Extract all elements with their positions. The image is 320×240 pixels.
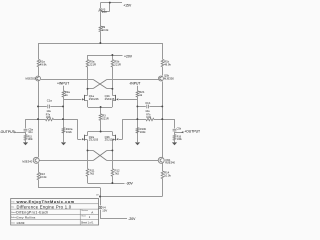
svg-text:49.9k: 49.9k xyxy=(40,63,47,67)
svg-text:Doc: Doc xyxy=(11,207,14,209)
svg-text:Board: Board xyxy=(11,211,16,214)
svg-text:-30V: -30V xyxy=(126,182,134,186)
svg-text:C1b: C1b xyxy=(145,101,151,105)
svg-text:10u: 10u xyxy=(145,109,150,113)
svg-text:7k5: 7k5 xyxy=(115,172,120,176)
svg-text:MJE350: MJE350 xyxy=(164,76,174,80)
svg-text:2SK246: 2SK246 xyxy=(105,97,115,101)
svg-text:-INPUT: -INPUT xyxy=(129,82,140,86)
svg-text:10u: 10u xyxy=(28,130,33,134)
svg-text:Difference Engine Pro 1.0: Difference Engine Pro 1.0 xyxy=(17,204,72,209)
svg-text:MJE340: MJE340 xyxy=(165,161,175,165)
svg-text:10.0k: 10.0k xyxy=(102,28,109,32)
svg-text:Revision: Revision xyxy=(81,210,88,212)
svg-text:102k: 102k xyxy=(66,130,73,134)
svg-text:221R: 221R xyxy=(114,63,121,67)
svg-text:MJE350: MJE350 xyxy=(26,77,36,81)
svg-text:221R: 221R xyxy=(102,116,109,120)
svg-text:C5b: C5b xyxy=(177,128,182,131)
svg-text:15V: 15V xyxy=(102,208,107,212)
svg-text:49.9k: 49.9k xyxy=(164,63,171,67)
svg-text:2SJ103: 2SJ103 xyxy=(105,138,115,142)
svg-text:-20V: -20V xyxy=(128,217,136,221)
svg-text:+15V: +15V xyxy=(123,4,132,8)
svg-text:102k: 102k xyxy=(46,117,52,119)
svg-text:2SJ103: 2SJ103 xyxy=(89,138,99,142)
svg-text:+OUTPUT: +OUTPUT xyxy=(184,129,200,133)
svg-text:102k: 102k xyxy=(140,130,147,134)
svg-text:10u: 10u xyxy=(46,109,51,113)
svg-text:MJE340: MJE340 xyxy=(22,159,32,163)
svg-text:Title: Title xyxy=(11,200,14,203)
svg-text:100k: 100k xyxy=(28,139,34,141)
svg-text:100k: 100k xyxy=(177,139,183,141)
svg-text:2SK246: 2SK246 xyxy=(89,97,99,101)
svg-text:A: A xyxy=(91,210,93,214)
svg-text:Sheet: Sheet xyxy=(81,214,86,217)
svg-text:+20V: +20V xyxy=(124,55,133,59)
svg-text:7k5: 7k5 xyxy=(90,172,95,176)
svg-text:C1a: C1a xyxy=(47,99,53,103)
svg-text:10.0k: 10.0k xyxy=(40,175,47,179)
svg-text:15V: 15V xyxy=(102,10,107,14)
svg-text:www.EnjoyTheMusic.com: www.EnjoyTheMusic.com xyxy=(16,199,75,204)
svg-text:Sheet 1 of 1: Sheet 1 of 1 xyxy=(81,221,94,224)
svg-text:1/4/99: 1/4/99 xyxy=(16,221,24,225)
svg-text:+INPUT: +INPUT xyxy=(57,82,69,86)
svg-text:221R: 221R xyxy=(89,63,96,67)
svg-text:10.0k: 10.0k xyxy=(164,174,171,178)
svg-text:102k: 102k xyxy=(146,117,152,119)
svg-text:Date: Date xyxy=(11,221,15,224)
svg-text:-OUTPUT: -OUTPUT xyxy=(0,130,15,134)
svg-text:DifEngPro1-Each: DifEngPro1-Each xyxy=(16,210,48,214)
svg-text:Grey Rollins: Grey Rollins xyxy=(16,216,36,220)
